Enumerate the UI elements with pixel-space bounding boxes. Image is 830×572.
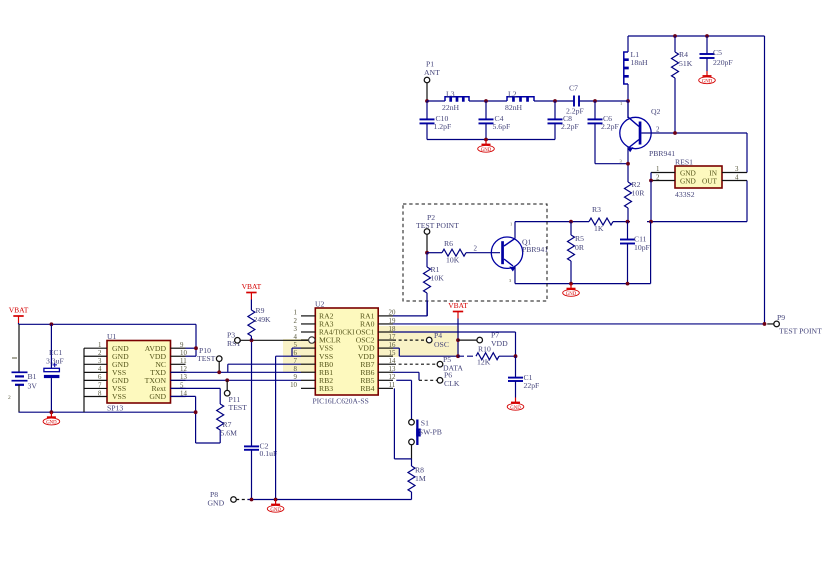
svg-text:4: 4 <box>98 366 102 373</box>
transistor Q2 PBR941 <box>620 117 651 148</box>
capacitor C7 series <box>573 96 575 107</box>
svg-text:CLK: CLK <box>444 379 460 388</box>
svg-text:249K: 249K <box>254 315 272 324</box>
dashed box P2 test circuit <box>403 204 547 301</box>
pin 20 U2 RA1 <box>378 315 393 317</box>
pin 17 U2 OSC2 <box>378 339 393 341</box>
svg-text:TEST: TEST <box>229 403 248 412</box>
svg-text:22nH: 22nH <box>442 103 460 112</box>
svg-text:Q2: Q2 <box>651 107 661 116</box>
svg-text:OUT: OUT <box>702 176 718 185</box>
svg-text:S1: S1 <box>421 419 429 428</box>
svg-text:433S2: 433S2 <box>675 190 695 199</box>
svg-text:GND: GND <box>208 499 225 508</box>
svg-text:PIC16LC620A-SS: PIC16LC620A-SS <box>313 397 369 406</box>
wire ground rail bottom-left <box>19 411 196 413</box>
svg-text:L3: L3 <box>446 90 455 99</box>
svg-text:C7: C7 <box>569 84 578 93</box>
svg-text:7: 7 <box>98 382 102 389</box>
wire bottom ground rail <box>248 499 412 501</box>
pin 3 U2 RA4/T0CKI <box>301 331 315 333</box>
resistor R2 <box>625 182 632 208</box>
svg-text:1.2pF: 1.2pF <box>434 122 452 131</box>
svg-text:5.6M: 5.6M <box>221 429 238 438</box>
svg-text:2: 2 <box>294 318 298 325</box>
pin 11 U2 RB4 <box>378 387 393 389</box>
pin 3 RES1 <box>722 172 747 174</box>
svg-text:2: 2 <box>656 175 660 182</box>
svg-text:11: 11 <box>180 358 187 365</box>
inductor L3 <box>445 97 469 101</box>
svg-text:3V: 3V <box>28 382 38 391</box>
svg-text:GND: GND <box>149 392 166 401</box>
wire U1 AVDD/VDD to VBAT rail <box>195 324 197 356</box>
wire filter ground rail <box>427 139 555 141</box>
svg-text:9: 9 <box>180 342 184 349</box>
wire Q1 emitter <box>514 267 516 284</box>
pin 6 U1 GND <box>84 379 107 381</box>
svg-text:10pF: 10pF <box>634 243 650 252</box>
wire Rext to R7 <box>171 387 221 389</box>
wire U1 left pins ground bus <box>83 348 85 412</box>
pin 16 U2 VDD <box>378 347 393 349</box>
wire VBAT rail <box>18 323 20 324</box>
pin 7 U2 RB0 <box>301 363 315 365</box>
capacitor C5 <box>705 34 709 38</box>
svg-text:3: 3 <box>294 326 298 333</box>
svg-text:18nH: 18nH <box>631 58 649 67</box>
connector P9 TEST POINT <box>767 323 774 325</box>
svg-text:ANT: ANT <box>424 68 440 77</box>
svg-text:GND: GND <box>481 148 492 153</box>
svg-text:82nH: 82nH <box>505 103 523 112</box>
svg-text:8: 8 <box>98 390 102 397</box>
pin 15 U2 VDD <box>378 355 393 357</box>
svg-text:TEST: TEST <box>197 354 216 363</box>
svg-text:15: 15 <box>389 350 396 357</box>
capacitor C11 <box>627 222 629 240</box>
pin 2 RES1 <box>651 180 675 182</box>
pin 5 U2 VSS <box>301 347 315 349</box>
svg-text:220pF: 220pF <box>713 58 733 67</box>
svg-text:GND: GND <box>702 79 713 84</box>
pin 2 U2 RA3 <box>301 323 315 325</box>
svg-text:RA3: RA3 <box>319 320 334 329</box>
svg-text:GND: GND <box>46 421 57 426</box>
wire emitter ground rail <box>515 283 651 285</box>
pin 12 U1 TXD <box>171 371 186 373</box>
wire R1 to RA1 pin20 <box>393 315 427 317</box>
wire Q2 collector <box>627 101 629 118</box>
svg-text:GND: GND <box>270 508 281 513</box>
pin 13 U1 TXON <box>171 379 186 381</box>
wire U1 GND pin14 to R7 <box>171 395 196 397</box>
wire S1 bottom / RB4 loop <box>411 445 413 459</box>
resistor R4 <box>673 34 677 38</box>
svg-text:GND: GND <box>510 406 521 411</box>
capacitor C1 <box>515 356 517 377</box>
svg-text:51K: 51K <box>679 59 693 68</box>
svg-text:B1: B1 <box>28 372 37 381</box>
capacitor C10 <box>426 101 428 119</box>
resistor R6 <box>427 252 442 254</box>
svg-text:19: 19 <box>389 318 396 325</box>
svg-text:R5: R5 <box>575 234 584 243</box>
pin 8 U1 VSS <box>84 396 107 398</box>
svg-text:7: 7 <box>294 358 298 365</box>
svg-text:VBAT: VBAT <box>448 301 468 310</box>
inductor L1 <box>627 36 629 52</box>
ground C5 <box>706 71 708 76</box>
svg-text:9: 9 <box>294 374 298 381</box>
wire Q1 collector <box>514 222 516 239</box>
svg-text:1: 1 <box>294 310 298 317</box>
connector P6 CLK <box>419 379 437 381</box>
capacitor C4 <box>485 101 487 119</box>
wire VSS pins tie <box>291 348 293 356</box>
svg-text:1K: 1K <box>594 224 604 233</box>
svg-text:OSC: OSC <box>434 340 449 349</box>
pin 8 U2 RB1 <box>301 371 315 373</box>
capacitor C8 <box>554 101 556 119</box>
svg-text:SP13: SP13 <box>107 404 123 413</box>
wire VDD pins to VBAT <box>398 348 400 356</box>
wire <box>613 221 630 223</box>
svg-text:8: 8 <box>294 366 298 373</box>
node junction L1/chain <box>626 99 630 103</box>
svg-text:1: 1 <box>620 101 622 106</box>
pin 1 U2 RA2 <box>301 315 315 317</box>
svg-text:3: 3 <box>735 166 739 173</box>
wire Q2 base to R4/RES1 <box>641 132 747 134</box>
svg-text:10K: 10K <box>431 274 445 283</box>
pin 3 U1 GND <box>84 363 107 365</box>
svg-text:R10: R10 <box>478 345 491 354</box>
svg-text:2.2pF: 2.2pF <box>561 122 579 131</box>
svg-text:2: 2 <box>474 245 478 253</box>
wire OSC1 to R10/C1 <box>393 331 516 333</box>
svg-text:RB3: RB3 <box>319 384 333 393</box>
svg-text:2: 2 <box>656 126 660 134</box>
pin 11 U1 NC <box>171 363 186 365</box>
svg-text:PBR941: PBR941 <box>522 245 548 254</box>
wire <box>534 100 574 102</box>
connector P4 OSC <box>393 339 426 341</box>
resistor R8 <box>411 459 413 466</box>
connector P5 DATA <box>393 363 437 365</box>
node P2/R6/R1 <box>425 251 429 255</box>
pin 9 U2 RB2 <box>301 379 315 381</box>
highlight band right of U2 <box>378 326 459 357</box>
svg-text:22pF: 22pF <box>524 381 540 390</box>
capacitor EC1 polarized <box>50 322 54 326</box>
node antenna chain <box>425 99 429 103</box>
svg-text:4: 4 <box>294 334 298 341</box>
svg-text:L2: L2 <box>508 90 517 99</box>
svg-text:R4: R4 <box>679 50 688 59</box>
svg-text:2.2pF: 2.2pF <box>601 122 619 131</box>
ground bottom rail <box>275 500 277 505</box>
svg-text:11: 11 <box>389 382 396 389</box>
svg-text:VDD: VDD <box>491 339 508 348</box>
svg-text:2: 2 <box>8 395 11 401</box>
wire Q2 emitter <box>627 147 629 182</box>
svg-text:3: 3 <box>98 358 102 365</box>
svg-text:R9: R9 <box>256 306 265 315</box>
pin 14 U2 RB7 <box>378 363 393 365</box>
svg-text:12: 12 <box>389 374 396 381</box>
resistor R7 <box>217 404 224 430</box>
svg-text:1: 1 <box>656 166 660 173</box>
battery B1 3V <box>18 324 20 372</box>
svg-text:10R: 10R <box>632 189 646 198</box>
wire RA0 to P9 <box>393 323 765 325</box>
wire <box>469 100 507 102</box>
pin 13 U2 RB6 <box>378 371 393 373</box>
pin 10 U2 RB3 <box>301 387 315 389</box>
svg-text:12K: 12K <box>477 358 491 367</box>
pin 5 U1 Rext <box>171 387 186 389</box>
switch S1 SW-PB <box>409 419 415 425</box>
svg-text:P9: P9 <box>777 313 785 322</box>
svg-text:P4: P4 <box>434 331 442 340</box>
capacitor C6 <box>594 101 596 119</box>
pin 14 U1 GND <box>171 396 186 398</box>
svg-text:1M: 1M <box>415 474 426 483</box>
ground R5 <box>570 284 572 289</box>
wire antenna chain <box>427 100 445 102</box>
svg-text:6: 6 <box>98 374 102 381</box>
capacitor C2 <box>251 340 253 446</box>
node VBAT/P7 <box>456 338 460 342</box>
resistor R5 <box>570 222 572 235</box>
ground C1 <box>515 398 517 403</box>
pin 7 U1 VSS <box>84 387 107 389</box>
svg-text:2: 2 <box>98 350 102 357</box>
wire RB6 to P6 <box>393 371 419 373</box>
wire VSS net vertical <box>275 356 277 499</box>
svg-text:RES1: RES1 <box>675 158 693 167</box>
connector P11 TEST <box>226 380 228 390</box>
svg-text:10K: 10K <box>446 256 460 265</box>
pin 1 RES1 <box>651 172 675 174</box>
pin 10 U1 VDD <box>171 355 186 357</box>
svg-text:U1: U1 <box>107 332 117 341</box>
pin 18 U2 OSC1 <box>378 331 393 333</box>
wire top rail <box>628 35 765 37</box>
wire RB0 net <box>228 363 301 365</box>
svg-text:C5: C5 <box>713 48 722 57</box>
svg-text:U2: U2 <box>315 300 325 309</box>
svg-text:VBAT: VBAT <box>242 282 262 291</box>
svg-text:VSS: VSS <box>112 392 126 401</box>
pin 1 U1 GND <box>84 347 107 349</box>
svg-text:5.6pF: 5.6pF <box>493 122 511 131</box>
resistor R10 <box>456 354 460 358</box>
svg-text:TEST POINT: TEST POINT <box>416 221 459 230</box>
connector P7 VDD <box>458 339 477 341</box>
ground filter <box>485 140 487 145</box>
svg-text:1: 1 <box>510 222 512 227</box>
svg-text:4: 4 <box>735 175 739 182</box>
svg-text:GND: GND <box>566 292 577 297</box>
pin 12 U2 RB5 <box>378 379 393 381</box>
svg-text:0R: 0R <box>575 243 585 252</box>
svg-text:GND: GND <box>680 176 696 185</box>
node R10/C1 <box>514 354 518 358</box>
svg-text:R3: R3 <box>592 205 601 214</box>
highlight band left of U2 <box>283 339 315 372</box>
svg-text:RB4: RB4 <box>360 384 374 393</box>
wire collector net <box>515 221 589 223</box>
wire <box>579 100 628 102</box>
svg-text:PBR941: PBR941 <box>649 149 675 158</box>
transistor Q1 PBR941 <box>491 237 522 268</box>
svg-text:VBAT: VBAT <box>9 306 29 315</box>
wire RES1 pin 4 loop <box>746 181 748 222</box>
svg-text:10: 10 <box>290 382 297 389</box>
pin 6 U2 VSS <box>301 355 315 357</box>
wire RES1 pins 1-2 tie <box>650 173 652 181</box>
pin 4 RES1 <box>722 180 747 182</box>
svg-text:R6: R6 <box>444 239 453 248</box>
wire RB5 to S1 <box>396 379 411 381</box>
pin 2 U1 GND <box>84 355 107 357</box>
pin 9 U1 AVDD <box>171 347 186 349</box>
resistor R3 <box>589 218 613 225</box>
pin 4 U2 MCLR <box>301 339 308 341</box>
ground battery rail <box>50 412 52 417</box>
svg-text:SW-PB: SW-PB <box>419 428 442 437</box>
pin 19 U2 RA0 <box>378 323 393 325</box>
wire TXON net <box>171 379 302 381</box>
wire C6 to Q2 emitter <box>595 163 628 165</box>
svg-text:1: 1 <box>98 342 102 349</box>
wire TXD net <box>171 371 302 373</box>
inductor L2 <box>507 97 534 101</box>
resistor R1 <box>426 253 428 267</box>
svg-text:TEST POINT: TEST POINT <box>779 327 822 336</box>
pin 4 U1 VSS <box>84 371 107 373</box>
svg-text:0.1uF: 0.1uF <box>260 449 278 458</box>
